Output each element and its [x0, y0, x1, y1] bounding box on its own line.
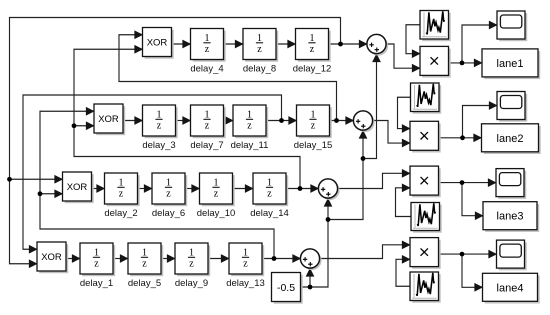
- wire sum S2 to product P2: [373, 121, 411, 144]
- unit delay block delay_8: [243, 29, 278, 62]
- wire product P4 to scope4: [439, 253, 497, 255]
- wire branch to sum S2 bottom: [328, 131, 363, 220]
- sum block S3: [318, 179, 339, 200]
- junction to XOR3 input1: [7, 177, 12, 182]
- feedback wire row1: delay_12 tap to XOR4 input2: [10, 18, 341, 264]
- svg-text:1: 1: [205, 33, 210, 44]
- svg-text:z: z: [257, 44, 262, 55]
- svg-text:delay_14: delay_14: [250, 208, 289, 219]
- unit delay block delay_1: [80, 243, 115, 276]
- XOR block XOR4: [37, 242, 68, 273]
- wire tap to XOR2 input2: [74, 125, 94, 127]
- wire sum S1 to product P1: [386, 44, 420, 68]
- svg-text:delay_12: delay_12: [293, 64, 332, 75]
- signal source block sig1: [420, 11, 451, 42]
- svg-text:z: z: [205, 44, 210, 55]
- wire delay_14 to sum S3: [286, 188, 319, 190]
- unit delay block delay_7: [191, 105, 226, 138]
- wire branch to sum S4 bottom: [309, 269, 311, 288]
- svg-text:XOR: XOR: [147, 38, 168, 49]
- svg-text:lane1: lane1: [497, 58, 524, 70]
- svg-text:z: z: [243, 259, 248, 270]
- svg-text:1: 1: [257, 33, 262, 44]
- wire to scope2: [463, 106, 498, 138]
- wire sum S3 to product P3: [338, 173, 411, 188]
- scope block scope3: [496, 169, 526, 199]
- svg-text:z: z: [267, 189, 272, 200]
- unit delay block delay_9: [175, 243, 210, 276]
- label delay_5: [128, 278, 161, 289]
- label delay_3: [142, 140, 175, 151]
- svg-text:delay_6: delay_6: [152, 208, 185, 219]
- wire constant to sum S3 bottom: [301, 199, 329, 288]
- svg-text:1: 1: [311, 109, 316, 120]
- svg-text:1: 1: [142, 247, 147, 258]
- wire delay_2 to delay_6: [138, 188, 153, 190]
- svg-text:lane3: lane3: [497, 211, 524, 223]
- junction product P4 out: [460, 252, 465, 257]
- wire product P2 to lane2: [439, 137, 482, 139]
- svg-text:delay_8: delay_8: [243, 64, 276, 75]
- label delay_15: [294, 140, 333, 151]
- svg-text:1: 1: [205, 109, 210, 120]
- output block lane4: [483, 273, 540, 303]
- svg-text:lane4: lane4: [497, 282, 524, 294]
- wire delay_15 tap to XOR1 input1: [119, 35, 337, 121]
- wire delay_15 to sum S2: [330, 120, 354, 122]
- junction delay_13 out: [272, 256, 277, 261]
- label delay_2: [104, 208, 137, 219]
- junction constant to S1 branch: [361, 156, 366, 161]
- label delay_11: [231, 140, 269, 151]
- feedback wire row2: delay_11 tap to XOR4 input1: [23, 95, 282, 249]
- wire delay_8 to delay_12: [276, 43, 296, 45]
- unit delay block delay_12: [296, 29, 331, 62]
- svg-text:z: z: [157, 121, 162, 132]
- wire XOR1 to delay_4: [172, 43, 191, 45]
- label delay_6: [152, 208, 185, 219]
- svg-text:z: z: [189, 259, 194, 270]
- XOR block XOR2: [94, 104, 125, 135]
- junction product P2 out: [460, 135, 465, 140]
- unit delay block delay_3: [143, 105, 178, 138]
- svg-text:1: 1: [214, 177, 219, 188]
- svg-text:1: 1: [243, 247, 248, 258]
- wire delay_13 tap to XOR2 input1: [40, 111, 274, 258]
- svg-text:z: z: [94, 259, 99, 270]
- wire delay_11 to delay_15: [266, 120, 297, 122]
- wire product P1 to lane1: [449, 62, 483, 64]
- unit delay block delay_10: [200, 173, 235, 206]
- scope block scope4: [497, 240, 527, 270]
- wire to lane4: [462, 254, 483, 287]
- unit delay block delay_2: [105, 173, 140, 206]
- output block lane3: [483, 202, 539, 232]
- junction delay_15 out: [334, 118, 339, 123]
- svg-text:1: 1: [247, 109, 252, 120]
- scope block scope2: [497, 92, 527, 122]
- svg-text:-0.5: -0.5: [277, 282, 295, 294]
- svg-text:z: z: [205, 121, 210, 132]
- svg-text:delay_10: delay_10: [197, 208, 236, 219]
- wire delay_12 to sum S1: [329, 43, 368, 45]
- wire to scope1: [462, 25, 497, 63]
- product block P1: [420, 46, 451, 77]
- junction constant to S4: [308, 285, 313, 290]
- unit delay block delay_13: [229, 243, 264, 276]
- signal source block sig2: [411, 83, 442, 114]
- svg-text:1: 1: [189, 247, 194, 258]
- svg-text:z: z: [214, 189, 219, 200]
- junction to XOR3 input2: [38, 191, 43, 196]
- wire source sig1 to product P1: [406, 25, 420, 54]
- sum block S2: [353, 111, 374, 132]
- svg-text:delay_5: delay_5: [128, 278, 161, 289]
- scope block scope1: [497, 11, 527, 41]
- wire XOR4 to delay_1: [66, 258, 80, 260]
- product block P2: [410, 121, 441, 152]
- junction product P3 out: [460, 180, 465, 185]
- svg-text:z: z: [247, 121, 252, 132]
- label delay_13: [226, 278, 265, 289]
- wire source sig4 to product P4: [396, 259, 410, 286]
- sum block S1: [367, 34, 388, 55]
- product block P3: [410, 166, 441, 197]
- wire tap to XOR3 input1: [10, 178, 63, 180]
- svg-text:delay_11: delay_11: [231, 140, 269, 151]
- svg-text:1: 1: [166, 177, 171, 188]
- junction to XOR2 input2: [72, 123, 77, 128]
- wire XOR3 to delay_2: [92, 188, 105, 190]
- wire delay_3 to delay_7: [176, 120, 191, 122]
- label delay_14: [250, 208, 289, 219]
- svg-text:z: z: [311, 121, 316, 132]
- junction row2 feedback tap: [279, 118, 284, 123]
- label delay_4: [190, 64, 223, 75]
- svg-text:XOR: XOR: [41, 252, 62, 263]
- svg-text:delay_15: delay_15: [294, 140, 333, 151]
- wire delay_4 to delay_8: [224, 43, 244, 45]
- svg-text:lane2: lane2: [497, 133, 524, 145]
- signal source block sig4: [410, 272, 441, 303]
- unit delay block delay_15: [297, 105, 332, 138]
- wire delay_7 to delay_11: [224, 120, 234, 122]
- svg-text:delay_9: delay_9: [175, 278, 208, 289]
- junction row1 feedback tap: [338, 42, 343, 47]
- svg-text:1: 1: [310, 33, 315, 44]
- wire branch to sum S1 bottom: [363, 54, 377, 159]
- label delay_10: [197, 208, 236, 219]
- output block lane1: [482, 49, 540, 79]
- label delay_9: [175, 278, 208, 289]
- wire XOR2 to delay_3: [123, 120, 143, 122]
- label delay_12: [293, 64, 332, 75]
- junction constant to S2 branch: [326, 217, 331, 222]
- wire delay_6 to delay_10: [185, 188, 200, 190]
- junction row3 feedback tap: [298, 186, 303, 191]
- wire delay_1 to delay_5: [113, 258, 128, 260]
- svg-text:delay_7: delay_7: [190, 140, 223, 151]
- product block P4: [410, 238, 441, 269]
- unit delay block delay_14: [253, 173, 288, 206]
- output block lane2: [482, 124, 541, 154]
- svg-text:delay_13: delay_13: [226, 278, 265, 289]
- XOR block XOR3: [63, 172, 94, 203]
- wire delay_10 to delay_14: [233, 188, 254, 190]
- svg-text:XOR: XOR: [98, 114, 119, 125]
- svg-text:delay_2: delay_2: [104, 208, 137, 219]
- svg-text:1: 1: [267, 177, 272, 188]
- wire tap to XOR3 input2: [40, 193, 63, 195]
- svg-text:1: 1: [119, 177, 124, 188]
- svg-text:1: 1: [157, 109, 162, 120]
- wire delay_5 to delay_9: [161, 258, 175, 260]
- svg-text:delay_1: delay_1: [80, 278, 113, 289]
- signal source block sig3: [411, 203, 442, 233]
- unit delay block delay_5: [128, 243, 163, 276]
- svg-text:z: z: [142, 259, 147, 270]
- svg-text:1: 1: [94, 247, 99, 258]
- svg-text:XOR: XOR: [67, 182, 88, 193]
- svg-text:z: z: [166, 189, 171, 200]
- wire delay_13 to sum S4: [262, 258, 301, 260]
- unit delay block delay_4: [191, 29, 226, 62]
- XOR block XOR1: [143, 28, 174, 59]
- feedback wire row3: delay_14 tap to XOR1 input2: [74, 49, 300, 188]
- unit delay block delay_11: [233, 105, 268, 138]
- label delay_8: [243, 64, 276, 75]
- wire sum S4 to product P4: [320, 245, 411, 259]
- constant block -0.5: [272, 273, 303, 304]
- svg-text:delay_4: delay_4: [190, 64, 223, 75]
- label delay_1: [80, 278, 113, 289]
- svg-text:delay_3: delay_3: [142, 140, 175, 151]
- unit delay block delay_6: [152, 173, 187, 206]
- sum block S4: [300, 249, 321, 270]
- wire to lane3: [462, 183, 483, 216]
- label delay_7: [190, 140, 223, 151]
- wire source sig2 to product P2: [398, 97, 411, 128]
- wire delay_9 to delay_13: [208, 258, 229, 260]
- svg-text:z: z: [119, 189, 124, 200]
- wire source sig3 to product P3: [396, 188, 412, 217]
- wire product P3 to scope3: [439, 182, 497, 184]
- svg-text:z: z: [310, 44, 315, 55]
- junction product P1 out: [460, 61, 465, 66]
